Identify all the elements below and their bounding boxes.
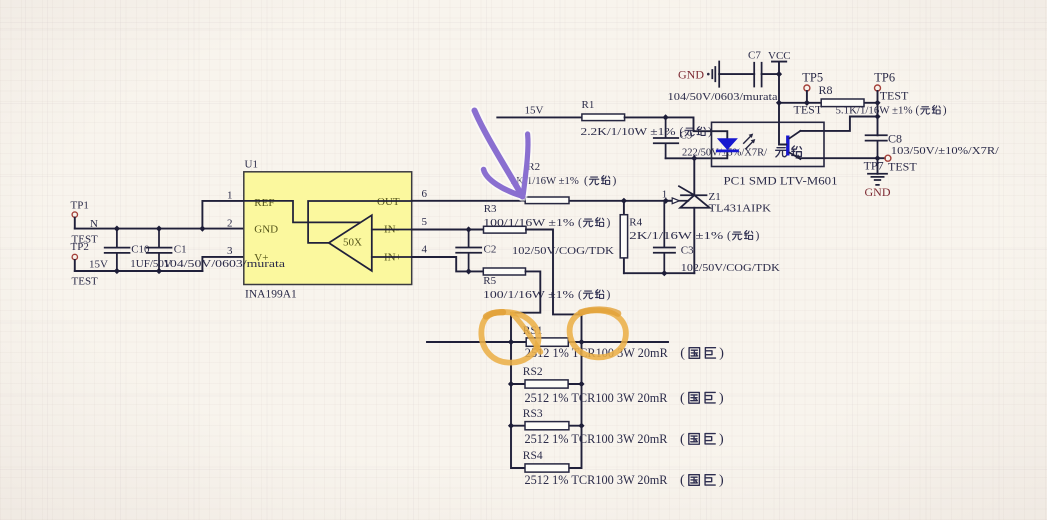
testpoint TP5 (794, 71, 824, 117)
svg-text:C7: C7 (748, 50, 761, 62)
resistor R8 (819, 83, 947, 116)
junction R4 top on ref wire (621, 198, 627, 204)
junction collector / C8 top (874, 113, 880, 119)
junction C1 top on N rail (156, 226, 162, 232)
wire crossing RS1 row (427, 341, 668, 343)
junction pin1 branch on N rail (199, 226, 205, 232)
svg-text:3: 3 (227, 245, 233, 257)
svg-text:VCC: VCC (768, 50, 791, 62)
testpoint TP1 (71, 199, 99, 245)
junction VCC branch on R8 wire (776, 100, 782, 106)
capacitor C3 (654, 201, 780, 274)
wire R3 right down to RS right bus (526, 230, 582, 343)
svg-text:C2: C2 (484, 244, 497, 256)
wire TP2 to rail (74, 260, 76, 271)
wire pin5 to R3 (412, 229, 484, 231)
svg-text:2.2K/1/10W ±1%: 2.2K/1/10W ±1% (581, 126, 676, 138)
junction RS3 left (508, 423, 514, 429)
wire R1 to LED anode corner (625, 117, 728, 138)
U1 internal IN- wire (372, 229, 412, 231)
svg-text:103/50V/±10%/X7R/: 103/50V/±10%/X7R/ (891, 145, 1000, 157)
svg-text:GND: GND (865, 185, 891, 199)
svg-text:102/50V/COG/TDK: 102/50V/COG/TDK (512, 245, 614, 257)
wire GND to C7 (719, 73, 754, 75)
capacitor C8 (866, 131, 1000, 158)
svg-text:TEST: TEST (888, 160, 917, 174)
resistor R1 (581, 99, 713, 138)
resistor R3 (483, 203, 610, 233)
svg-text:TEST: TEST (72, 275, 99, 287)
annotation purple arrow (475, 111, 528, 197)
svg-text:RS2: RS2 (523, 366, 543, 378)
PC1 LED (716, 138, 739, 151)
svg-text:C8: C8 (888, 131, 902, 145)
resistor RS1 (523, 325, 725, 361)
svg-text:C1: C1 (174, 243, 187, 255)
capacitor C9 (654, 117, 802, 158)
resistor R4 (620, 201, 759, 273)
annotation orange circle right (570, 310, 626, 358)
capacitor C7 (668, 50, 778, 103)
wire PC1 emitter to GND node (800, 157, 877, 159)
testpoint TP6 (874, 71, 909, 103)
svg-text:INA199A1: INA199A1 (245, 289, 297, 301)
wire PC1 base to VCC node (779, 103, 786, 145)
wire RS left bus (511, 342, 525, 468)
wire R8 row (779, 102, 878, 104)
capacitor C2 (456, 230, 614, 272)
junction TP5 on R8 wire (804, 100, 810, 106)
svg-text:1: 1 (227, 190, 233, 202)
wire C7 to VCC node (762, 73, 779, 75)
svg-text:U1: U1 (245, 159, 258, 171)
svg-text:TL431AIPK: TL431AIPK (709, 203, 772, 215)
wire Z1 cathode (693, 158, 695, 195)
U1 internal REF wire (244, 201, 360, 223)
svg-text:50X: 50X (343, 237, 362, 249)
U1 internal OUT wire (308, 201, 412, 243)
junction C3 top on ref wire / node 1 (663, 198, 669, 204)
U1 internal amplifier triangle (329, 215, 372, 271)
junction C10 top on N rail (114, 226, 120, 232)
junction C2 bottom on IN+ wire (466, 268, 472, 274)
junction RS1 left (508, 339, 514, 345)
wire Z1 anode to bottom rail (693, 208, 695, 273)
svg-text:100/1/16W ±1%: 100/1/16W ±1% (483, 289, 574, 301)
svg-text:TEST: TEST (880, 89, 909, 103)
svg-text:5: 5 (422, 216, 428, 228)
svg-text:C3: C3 (681, 245, 694, 257)
svg-text:RS4: RS4 (523, 450, 543, 462)
junction C1 bottom on 15V rail (156, 268, 162, 274)
wire LED cathode rail (666, 151, 728, 158)
wire pin4 to R5 (412, 257, 484, 271)
svg-text:15V: 15V (525, 105, 544, 117)
optocoupler PC1 box (712, 122, 838, 187)
junction C2 top on IN- wire (466, 226, 472, 232)
resistor RS2 (511, 366, 724, 406)
wire TP6 node down to C8 (877, 103, 879, 136)
testpoint TP2 (71, 241, 109, 287)
resistor R2 (511, 161, 617, 204)
svg-text:R8: R8 (819, 83, 833, 97)
svg-text:R5: R5 (483, 275, 496, 287)
PC1 phototransistor (788, 131, 801, 159)
svg-text:TP6: TP6 (874, 71, 895, 85)
wire pin3 branch (202, 257, 243, 271)
svg-text:GND: GND (254, 224, 278, 236)
junction RS2 left (508, 381, 514, 387)
svg-text:TP7: TP7 (864, 159, 884, 173)
svg-text:OUT: OUT (377, 196, 400, 208)
svg-text:15V: 15V (89, 259, 108, 271)
wire pin1 branch (202, 201, 243, 229)
svg-text:100/1/16W ±1%: 100/1/16W ±1% (483, 217, 574, 229)
resistor R5 (483, 268, 611, 301)
resistor RS3 (511, 408, 724, 447)
node dot VCC (776, 71, 782, 77)
junction RS2 right (578, 381, 584, 387)
wire RS right bus (569, 342, 582, 468)
svg-text:GND: GND (678, 68, 704, 82)
U1 internal IN+ wire (372, 256, 412, 258)
wire N rail (top) (75, 228, 244, 230)
svg-text:R3: R3 (484, 203, 497, 215)
svg-text:2K/1/16W ±1%: 2K/1/16W ±1% (629, 230, 723, 242)
node dot rail/Z1 (691, 155, 697, 161)
Z1 ref arrow (662, 188, 689, 203)
svg-text:RS3: RS3 (523, 408, 543, 420)
wire pin6 OUT to R2 and ref node (412, 200, 672, 202)
PC1 emission arrows (743, 134, 755, 150)
svg-text:C9: C9 (680, 130, 693, 142)
shunt regulator Z1 (679, 186, 771, 214)
svg-text:V+: V+ (254, 252, 268, 264)
svg-text:4: 4 (422, 244, 428, 256)
junction C10 bottom on 15V rail (114, 268, 120, 274)
svg-text:2: 2 (227, 217, 233, 229)
svg-text:PC1 SMD LTV-M601: PC1 SMD LTV-M601 (724, 175, 838, 187)
resistor RS4 (523, 450, 724, 488)
wire VCC node down to R8 row (778, 74, 780, 103)
power GND left (678, 62, 719, 87)
power ground right (865, 158, 891, 199)
svg-text:6: 6 (422, 188, 428, 200)
annotation orange circle left (481, 312, 540, 363)
node dot C3 bottom (661, 270, 667, 276)
wire 15V to R1 (497, 116, 582, 118)
wire 15V rail (bottom) (75, 270, 203, 272)
svg-text:TP2: TP2 (71, 241, 89, 253)
wire bottom rail Z1/R4/C3 (624, 272, 694, 274)
junction emitter / C8 bottom / TP7 (874, 155, 880, 161)
svg-text:R1: R1 (582, 99, 595, 111)
wire TP1 to rail (74, 218, 76, 229)
svg-text:TP1: TP1 (71, 199, 89, 211)
capacitor C1 (147, 229, 187, 271)
svg-text:102/50V/COG/TDK: 102/50V/COG/TDK (681, 262, 780, 274)
wire R5 right down to RS left bus (511, 271, 540, 342)
wire PC1 collector to C8 node (800, 117, 877, 131)
svg-text:5.1K/1/16W ±1%: 5.1K/1/16W ±1% (836, 105, 913, 116)
junction TP6 on R8 wire (874, 100, 880, 106)
svg-text:104/50V/0603/murata: 104/50V/0603/murata (668, 91, 778, 103)
op-amp U1 body (163, 159, 412, 301)
svg-text:Z1: Z1 (709, 191, 721, 203)
svg-text:R4: R4 (629, 216, 642, 228)
power VCC (768, 50, 791, 74)
svg-text:REF: REF (254, 197, 274, 209)
node dot R1/C9 (663, 114, 669, 120)
junction RS1 right (578, 339, 584, 345)
testpoint TP7 (864, 155, 918, 173)
capacitor C10 (105, 229, 172, 271)
junction RS3 right (578, 423, 584, 429)
